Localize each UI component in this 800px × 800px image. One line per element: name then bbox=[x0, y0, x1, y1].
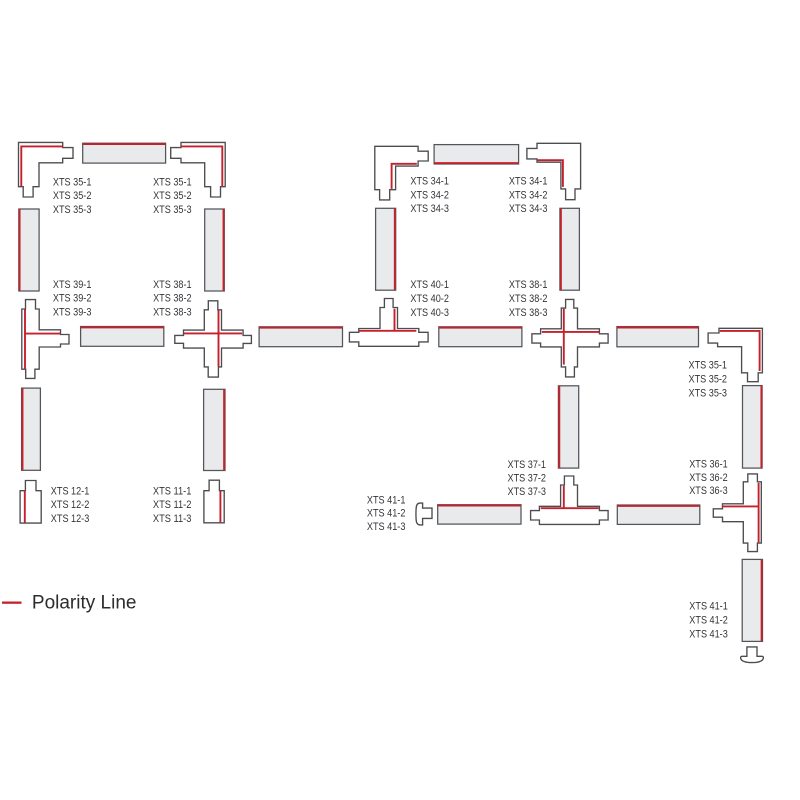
svg-text:XTS 34-3: XTS 34-3 bbox=[410, 203, 449, 215]
polarity line of T-connector XTS 36 (vertical) bbox=[758, 483, 760, 543]
L-corner connector XTS 35 (left square, top-left) bbox=[19, 142, 74, 197]
end cap XTS 12 bbox=[20, 481, 41, 524]
straight track (middle row 3) bbox=[439, 327, 522, 347]
straight track (bottom row, left) bbox=[438, 505, 521, 524]
polarity line of T-connector XTS 40 (horizontal) bbox=[359, 330, 416, 332]
svg-text:Polarity Line: Polarity Line bbox=[32, 593, 137, 614]
straight track (far right, below XTS 36) bbox=[742, 559, 762, 641]
label XTS 37-1/2/3 (bottom T-connector) bbox=[508, 459, 547, 498]
polarity line of right-square right track (inner/left) bbox=[560, 209, 562, 291]
polarity line of track below right X bbox=[558, 386, 560, 468]
end cap XTS 11 bbox=[204, 480, 224, 523]
straight track (far right, above XTS 36) bbox=[743, 386, 763, 469]
svg-text:XTS 34-1: XTS 34-1 bbox=[410, 175, 449, 187]
polarity line of T-connector XTS 37 (horizontal) bbox=[541, 507, 599, 509]
label XTS 34-1/2/3 (right square, top-right) bbox=[509, 175, 548, 215]
polarity line of left-side track bbox=[19, 209, 21, 291]
svg-text:XTS 38-1: XTS 38-1 bbox=[509, 279, 548, 291]
svg-text:XTS 11-2: XTS 11-2 bbox=[153, 499, 192, 511]
straight track (right square, right side) bbox=[560, 208, 580, 290]
svg-text:XTS 41-1: XTS 41-1 bbox=[689, 601, 728, 613]
label XTS 12-1/2/3 (left end cap) bbox=[51, 486, 90, 525]
polarity line of XTS 35 top-right corner bbox=[181, 146, 222, 186]
T-connector XTS 36 (far right, stem left) bbox=[713, 474, 761, 552]
feed-in plug XTS 41 (bottom row, left) bbox=[416, 503, 432, 525]
X-connector XTS 38 (left square, bottom-right) bbox=[175, 301, 252, 377]
svg-text:XTS 12-1: XTS 12-1 bbox=[51, 486, 90, 498]
label XTS 41-1/2/3 (bottom right plug) bbox=[689, 601, 728, 641]
svg-text:XTS 35-1: XTS 35-1 bbox=[153, 176, 192, 188]
svg-text:XTS 38-3: XTS 38-3 bbox=[509, 307, 548, 319]
svg-text:XTS 34-1: XTS 34-1 bbox=[509, 175, 548, 187]
svg-text:XTS 35-3: XTS 35-3 bbox=[53, 204, 92, 216]
label XTS 38-1/2/3 (left square, bottom-right) bbox=[153, 279, 192, 319]
svg-text:XTS 35-3: XTS 35-3 bbox=[689, 388, 728, 400]
polarity line of right-side track bbox=[223, 209, 225, 291]
svg-text:XTS 41-2: XTS 41-2 bbox=[367, 508, 406, 520]
svg-text:XTS 35-2: XTS 35-2 bbox=[689, 374, 728, 386]
T-connector XTS 39 (left square, bottom-left, stem right) bbox=[22, 300, 69, 379]
svg-text:XTS 35-2: XTS 35-2 bbox=[53, 190, 92, 202]
svg-text:XTS 40-2: XTS 40-2 bbox=[410, 293, 449, 305]
polarity line of far-right lower track bbox=[761, 560, 763, 642]
polarity line of middle track 1 bbox=[81, 326, 164, 328]
straight track (left square, right side) bbox=[205, 209, 225, 291]
L-corner connector XTS 34 (right square, top-right) bbox=[527, 143, 581, 199]
svg-text:XTS 38-2: XTS 38-2 bbox=[509, 293, 548, 305]
straight track (below left T-connector) bbox=[22, 388, 41, 470]
svg-text:XTS 35-3: XTS 35-3 bbox=[153, 204, 192, 216]
label XTS 38-1/2/3 (right square, bottom-right) bbox=[509, 279, 548, 319]
straight track (middle row 4) bbox=[617, 327, 699, 347]
svg-text:XTS 40-3: XTS 40-3 bbox=[410, 307, 449, 319]
straight track (below left X-connector) bbox=[204, 389, 225, 470]
svg-text:XTS 35-2: XTS 35-2 bbox=[153, 190, 192, 202]
X-connector XTS 38 (right square, bottom-right) bbox=[532, 299, 608, 377]
polarity line of track below left T bbox=[22, 388, 24, 470]
svg-text:XTS 39-2: XTS 39-2 bbox=[53, 293, 92, 305]
polarity line of XTS 34 top-right corner bbox=[537, 160, 563, 187]
T-connector XTS 40 (right square, bottom-left, stem up) bbox=[349, 299, 428, 347]
label XTS 36-1/2/3 (far right T-connector) bbox=[689, 459, 728, 498]
label XTS 35-1/2/3 (far right corner) bbox=[689, 360, 728, 400]
svg-text:XTS 36-3: XTS 36-3 bbox=[689, 485, 728, 497]
straight track (middle row 1) bbox=[81, 327, 164, 347]
legend polarity line sample (red dash) bbox=[2, 602, 22, 604]
svg-text:XTS 36-2: XTS 36-2 bbox=[689, 472, 728, 484]
svg-text:XTS 40-1: XTS 40-1 bbox=[410, 279, 449, 291]
polarity line of end cap XTS 12 bbox=[24, 491, 26, 523]
feed-in plug XTS 41 (bottom right, pointing down) bbox=[741, 647, 764, 663]
svg-text:XTS 41-1: XTS 41-1 bbox=[367, 494, 406, 506]
polarity line of X-connector (horizontal) bbox=[184, 332, 242, 334]
svg-text:XTS 38-2: XTS 38-2 bbox=[153, 293, 192, 305]
svg-text:XTS 12-2: XTS 12-2 bbox=[51, 499, 90, 511]
svg-text:XTS 12-3: XTS 12-3 bbox=[51, 513, 90, 525]
polarity line of right X-connector (vertical) bbox=[563, 309, 565, 365]
polarity line of T-connector XTS 40 (stem) bbox=[394, 309, 396, 331]
L-corner connector XTS 35 (far right, turning down) bbox=[708, 328, 762, 381]
svg-text:XTS 38-1: XTS 38-1 bbox=[153, 279, 192, 291]
straight track (below right X-connector) bbox=[558, 386, 578, 468]
svg-text:XTS 34-3: XTS 34-3 bbox=[509, 203, 548, 215]
svg-text:XTS 39-1: XTS 39-1 bbox=[53, 279, 92, 291]
svg-text:XTS 11-3: XTS 11-3 bbox=[153, 513, 192, 525]
polarity line of T-connector XTS 39 (vertical) bbox=[24, 309, 26, 369]
svg-text:XTS 35-1: XTS 35-1 bbox=[689, 360, 728, 372]
svg-text:XTS 38-3: XTS 38-3 bbox=[153, 307, 192, 319]
polarity line of end cap XTS 11 bbox=[219, 491, 221, 522]
L-corner connector XTS 35 (left square, top-right) bbox=[171, 142, 226, 197]
straight track (right square, top) bbox=[434, 145, 518, 164]
polarity line of right X-connector (horizontal) bbox=[542, 331, 599, 333]
straight track (bottom row, right) bbox=[617, 505, 700, 524]
straight track (left square, left side) bbox=[19, 209, 39, 291]
polarity line of bottom-row left track bbox=[438, 505, 521, 507]
svg-text:XTS 37-3: XTS 37-3 bbox=[508, 486, 547, 498]
label XTS 35-1/2/3 (left square, top-left) bbox=[53, 176, 92, 216]
svg-text:XTS 37-1: XTS 37-1 bbox=[508, 459, 547, 471]
polarity line of right-square left track (inner/right) bbox=[394, 209, 396, 291]
polarity line of T-connector XTS 39 (stem) bbox=[25, 333, 60, 335]
polarity line of top track (left square) bbox=[83, 143, 166, 145]
label XTS 35-1/2/3 (left square, top-right) bbox=[153, 176, 192, 216]
polarity line of T-connector XTS 37 (stem) bbox=[563, 486, 565, 509]
polarity line of T-connector XTS 36 (stem) bbox=[722, 505, 759, 507]
label XTS 40-1/2/3 (right square, bottom-left) bbox=[410, 279, 449, 319]
label XTS 39-1/2/3 (left square, bottom-left) bbox=[53, 279, 92, 319]
svg-text:XTS 39-3: XTS 39-3 bbox=[53, 307, 92, 319]
svg-text:XTS 37-2: XTS 37-2 bbox=[508, 472, 547, 484]
polarity line of XTS 35 top-left corner bbox=[21, 146, 63, 186]
polarity line of right-square top track (inner/bottom) bbox=[434, 162, 518, 164]
svg-text:XTS 41-2: XTS 41-2 bbox=[689, 615, 728, 627]
straight track (left square, top) bbox=[83, 143, 166, 163]
polarity line of middle track 2 bbox=[259, 327, 342, 329]
polarity line of track below left X bbox=[223, 390, 225, 471]
svg-text:XTS 34-2: XTS 34-2 bbox=[509, 189, 548, 201]
L-corner connector XTS 34 (right square, top-left) bbox=[375, 146, 428, 200]
polarity line of bottom-row right track bbox=[617, 505, 699, 507]
svg-text:XTS 36-1: XTS 36-1 bbox=[689, 459, 728, 471]
label XTS 34-1/2/3 (right square, top-left) bbox=[410, 175, 449, 215]
polarity line of XTS 34 top-left corner bbox=[392, 164, 417, 189]
svg-text:XTS 35-1: XTS 35-1 bbox=[53, 176, 92, 188]
svg-text:XTS 34-2: XTS 34-2 bbox=[410, 189, 449, 201]
polarity line of X-connector (vertical) bbox=[218, 310, 220, 366]
svg-text:XTS 41-3: XTS 41-3 bbox=[367, 521, 406, 533]
polarity line of middle track 3 bbox=[439, 327, 522, 329]
straight track (right square, left side) bbox=[376, 208, 396, 290]
polarity line of middle track 4 bbox=[617, 327, 698, 329]
T-connector XTS 37 (bottom row, stem up) bbox=[531, 476, 609, 524]
label XTS 11-1/2/3 (right end cap) bbox=[153, 486, 192, 525]
label XTS 41-1/2/3 (bottom row, left plug) bbox=[367, 494, 406, 533]
svg-text:XTS 41-3: XTS 41-3 bbox=[689, 628, 728, 640]
straight track (middle row 2) bbox=[259, 327, 342, 347]
polarity line of far-right upper track bbox=[760, 386, 762, 468]
polarity line of far-right XTS 35 corner bbox=[720, 331, 760, 371]
svg-text:XTS 11-1: XTS 11-1 bbox=[153, 486, 192, 498]
